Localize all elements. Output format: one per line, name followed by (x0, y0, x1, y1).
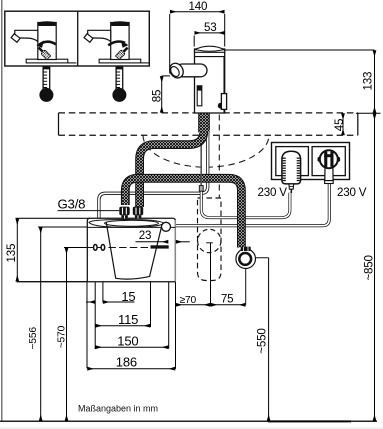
150 dim (96, 346, 168, 348)
svg-text:Maßangaben in mm: Maßangaben in mm (78, 404, 158, 414)
thermometer left (39, 67, 53, 102)
svg-text:~550: ~550 (255, 328, 268, 353)
page left border (1, 0, 3, 422)
spout tip (11, 34, 20, 42)
schuko plug (317, 150, 340, 183)
hose A: faucet -> heater right nut (140, 113, 210, 207)
faint bottom strip (0, 427, 383, 429)
cord from connector to power supply (201, 191, 290, 217)
svg-text:~556: ~556 (28, 327, 39, 350)
svg-text:150: 150 (117, 334, 138, 349)
hose nuts at heater (119, 207, 143, 219)
sensor cable visible part + connector (199, 149, 203, 191)
dashed drop line from counter to drain space (218, 115, 220, 199)
svg-text:140: 140 (189, 0, 208, 13)
svg-text:53: 53 (204, 21, 217, 34)
svg-text:186: 186 (116, 355, 137, 370)
svg-text:≥70: ≥70 (180, 295, 197, 306)
svg-text:~570: ~570 (56, 325, 67, 348)
spout (15, 30, 38, 41)
svg-text:23: 23 (139, 229, 152, 242)
svg-text:75: 75 (221, 292, 234, 305)
svg-text:133: 133 (362, 72, 375, 91)
svg-text:~850: ~850 (362, 255, 375, 280)
front rim (87, 226, 175, 228)
hose B: heater left nut -> corner valve (125, 178, 241, 247)
arrow arc (39, 42, 56, 45)
basin trapezoid (106, 223, 161, 280)
svg-text:230 V: 230 V (337, 186, 367, 199)
23 dim (136, 241, 169, 243)
svg-text:15: 15 (121, 289, 135, 304)
right panel faucet (84, 21, 149, 63)
15 dim (86, 301, 95, 303)
svg-text:45: 45 (333, 119, 346, 132)
186 dim (88, 368, 175, 370)
>=70 / 75 (176, 304, 210, 306)
keyhole line (87, 247, 151, 249)
svg-text:230 V: 230 V (258, 186, 288, 199)
floor line (0, 420, 377, 422)
left panel faucet (11, 21, 76, 63)
115 dim (96, 325, 150, 327)
drain center line over cords (208, 242, 210, 244)
heater power cord to right outlet (171, 184, 330, 226)
thermometer right (112, 67, 126, 102)
svg-text:G3/8: G3/8 (58, 197, 86, 212)
screwdriver (36, 45, 51, 60)
svg-text:135: 135 (5, 244, 18, 263)
arrow arc, head right (108, 41, 125, 45)
svg-text:85: 85 (151, 90, 164, 103)
svg-text:115: 115 (118, 312, 138, 327)
clearance dashed arc (143, 135, 269, 167)
power supply plug (282, 151, 301, 193)
lid ellipse (89, 220, 164, 228)
